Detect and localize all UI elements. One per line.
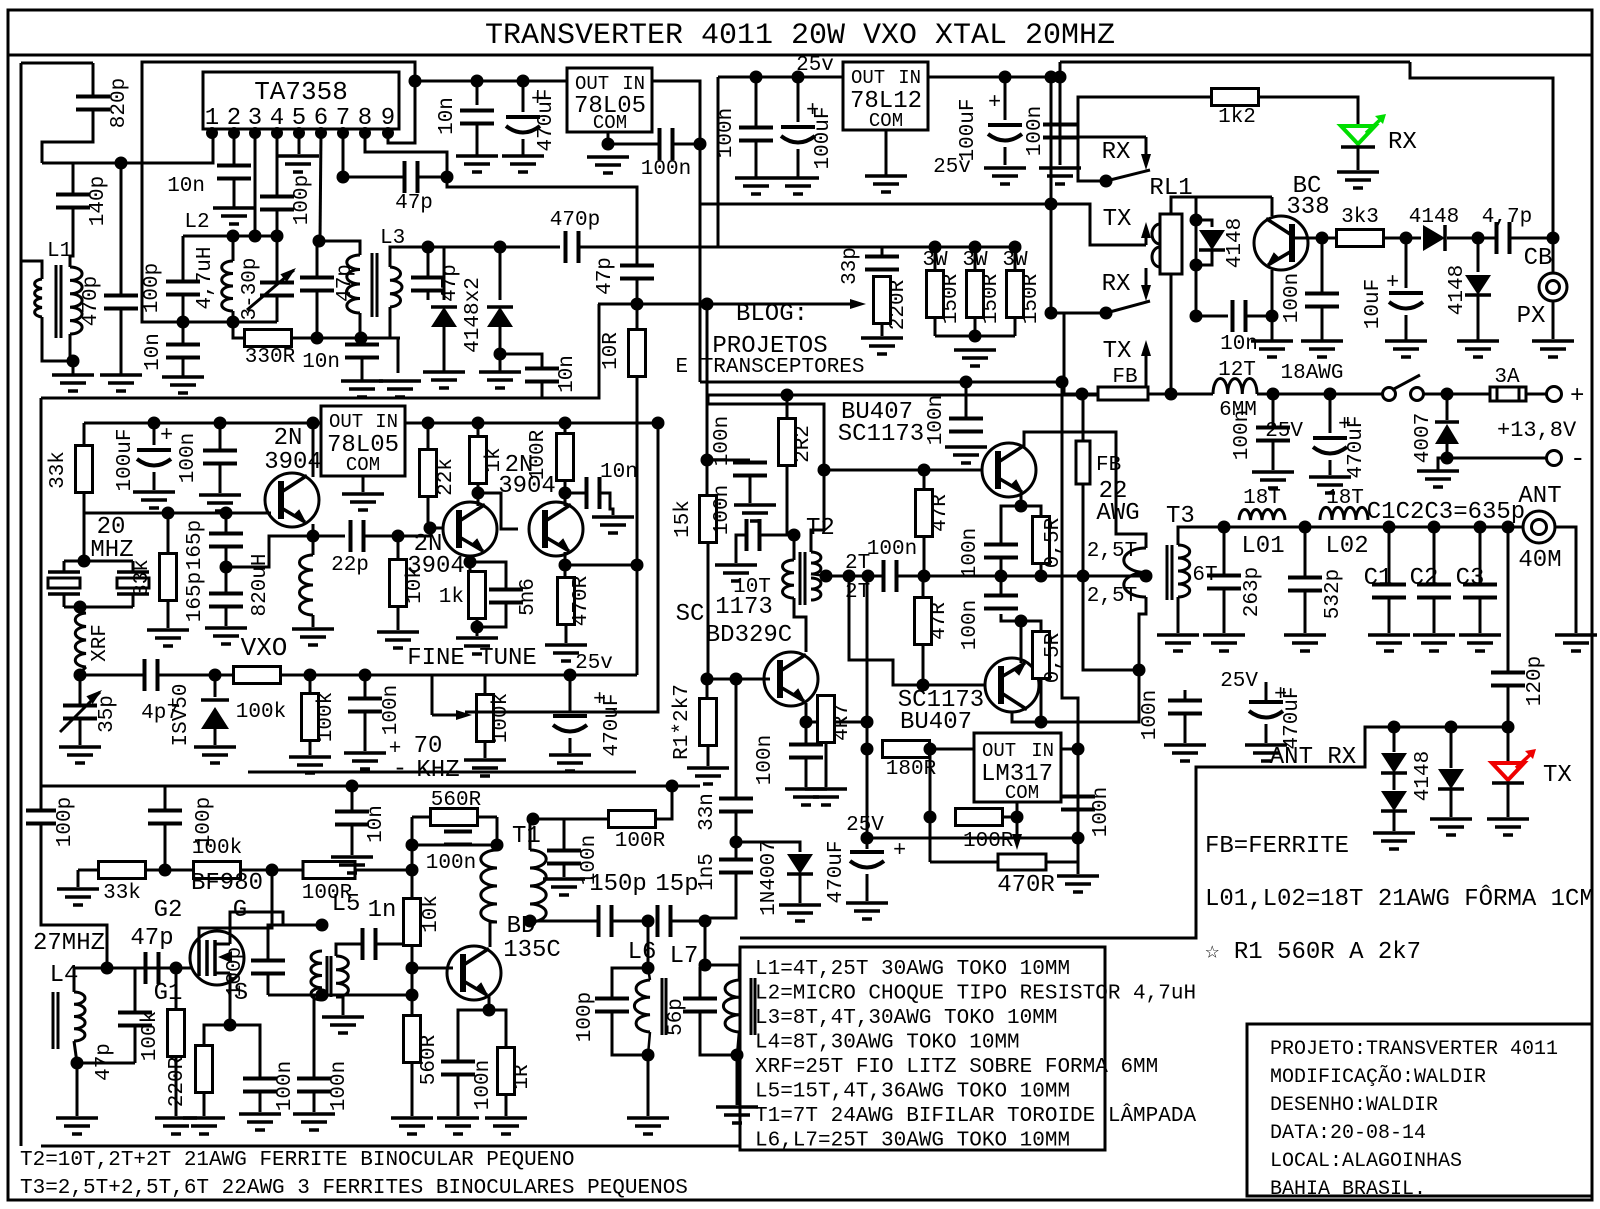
- wire pin7 down: [342, 133, 345, 177]
- wire minus rail: [1447, 457, 1546, 460]
- ground 4148 shunt: [1457, 339, 1499, 343]
- wire vxo box lines: [465, 423, 658, 712]
- capacitor 100n src1: [230, 1025, 260, 1078]
- svg-text:338: 338: [1286, 194, 1329, 221]
- svg-text:BAHIA BRASIL.: BAHIA BRASIL.: [1270, 1178, 1426, 1201]
- svg-text:+13,8V: +13,8V: [1497, 418, 1577, 443]
- wire 470p right to 25v column: [578, 246, 718, 249]
- capacitor 470p: [104, 294, 138, 298]
- capacitor 47p l4: [134, 968, 136, 1012]
- wire L1 secondary bottom: [69, 334, 72, 361]
- wire emitter rail: [884, 575, 1082, 577]
- wire 78L05 vxo COM: [362, 476, 365, 492]
- wire base 2N3904 vxo: [240, 512, 271, 515]
- wire to L1 primary: [21, 261, 42, 279]
- ground 10n L2: [162, 375, 204, 379]
- svg-text:135C: 135C: [503, 937, 561, 964]
- ground 100n l5: [293, 1112, 335, 1116]
- svg-text:25V: 25V: [846, 814, 884, 837]
- ground 220R src: [183, 1116, 225, 1120]
- svg-text:100n: 100n: [715, 108, 738, 158]
- inductor T2 sec b: [811, 578, 821, 600]
- svg-text:1n5: 1n5: [696, 853, 719, 891]
- capacitor 100n rail2: [1272, 394, 1275, 427]
- capacitor 100p pin4: [260, 195, 294, 199]
- wire BC338 emitter to gnd: [1271, 270, 1274, 341]
- svg-text:TRANSVERTER 4011 20W VXO XTAL: TRANSVERTER 4011 20W VXO XTAL 20MHZ: [485, 19, 1115, 53]
- svg-text:BD329C: BD329C: [706, 622, 792, 649]
- potentiometer 220R: [874, 277, 891, 324]
- capacitor 100n 78L05: [608, 143, 660, 146]
- capacitor 100uF in: [1004, 77, 1007, 120]
- svg-text:4148: 4148: [1409, 206, 1459, 229]
- svg-text:DATA:20-08-14: DATA:20-08-14: [1270, 1122, 1426, 1145]
- potentiometer 100k fine tune: [431, 675, 434, 715]
- svg-text:820p: 820p: [108, 78, 131, 128]
- ground 470p: [100, 373, 142, 377]
- ground 1R: [485, 1116, 527, 1120]
- svg-text:470p: 470p: [550, 209, 600, 232]
- wire BD135C emitter: [488, 996, 491, 1010]
- wire main 12v rail: [1064, 393, 1098, 396]
- ground L6: [627, 1116, 669, 1120]
- svg-text:100n: 100n: [426, 852, 476, 875]
- svg-text:FB=FERRITE: FB=FERRITE: [1205, 833, 1349, 860]
- svg-text:G1: G1: [154, 980, 183, 1007]
- svg-text:10k: 10k: [420, 895, 443, 933]
- svg-text:L5=15T,4T,36AWG TOKO 10MM: L5=15T,4T,36AWG TOKO 10MM: [755, 1081, 1070, 1104]
- svg-text:2N: 2N: [274, 425, 303, 452]
- capacitor 100n t2: [761, 534, 787, 537]
- svg-text:L02: L02: [1325, 533, 1368, 560]
- resistor 10k vxo: [397, 536, 400, 560]
- junction L2 coil top: [227, 230, 240, 243]
- wire CB feed: [1410, 62, 1553, 274]
- transistor BU407 lower: [985, 658, 1039, 712]
- svg-text:DESENHO:WALDIR: DESENHO:WALDIR: [1270, 1094, 1438, 1117]
- wire BC338 collector: [1271, 197, 1274, 216]
- svg-text:18T: 18T: [1243, 487, 1281, 510]
- wire 78L05 COM: [607, 132, 610, 144]
- inductor L1 primary: [35, 279, 42, 317]
- ground 470uF antrx: [1245, 743, 1287, 747]
- wire drive to 220R wiper: [598, 303, 858, 306]
- svg-text:10n: 10n: [436, 97, 459, 135]
- svg-text:560R: 560R: [418, 1034, 441, 1085]
- wire trimmer bottom: [276, 296, 279, 322]
- wire L3 primary bottom: [359, 313, 362, 338]
- switch RX 1: [1145, 137, 1148, 162]
- capacitor 10n det: [500, 354, 542, 368]
- ground LED RX: [1337, 170, 1379, 174]
- ground C2: [1413, 633, 1455, 637]
- wire 100p L2 bottom: [182, 295, 185, 322]
- svg-text:TX: TX: [1103, 338, 1132, 365]
- inductor L1 secondary: [70, 267, 82, 334]
- svg-text:2,5T: 2,5T: [1087, 540, 1137, 563]
- wire lm317 feed column: [1062, 382, 1078, 874]
- svg-text:OUT: OUT: [329, 411, 363, 433]
- capacitor 1n5: [719, 858, 753, 862]
- svg-text:165p: 165p: [184, 572, 207, 622]
- capacitor 470uF fine: [569, 675, 572, 711]
- svg-text:ISV50: ISV50: [170, 683, 193, 746]
- ground 10n L3: [341, 379, 383, 383]
- IC 78L12: [843, 62, 928, 130]
- ground 10uF: [1385, 339, 1427, 343]
- svg-text:C1C2C3=635p: C1C2C3=635p: [1367, 499, 1525, 526]
- wire L4 top: [74, 968, 160, 992]
- wire 150R commons: [935, 335, 1015, 338]
- svg-text:3k3: 3k3: [1341, 206, 1379, 229]
- svg-text:25V: 25V: [1265, 420, 1303, 443]
- svg-text:3904: 3904: [407, 553, 465, 580]
- svg-text:35p: 35p: [96, 695, 119, 733]
- wire pin9 supply loop: [142, 62, 415, 322]
- ground 100uF in: [984, 166, 1026, 170]
- ground 35p: [59, 745, 101, 749]
- wire BU407b emitter up: [1023, 621, 1025, 661]
- resistor 100R vxo: [564, 423, 567, 434]
- svg-text:100n: 100n: [274, 1061, 297, 1111]
- resistor 560R top: [431, 809, 478, 826]
- capacitor 100p l5: [268, 925, 322, 961]
- terminal minus: [1547, 451, 1562, 466]
- ground 100uF: [777, 176, 819, 180]
- wire ANT shell to gnd: [1555, 527, 1576, 633]
- wire source down: [229, 984, 232, 1025]
- junction pin6 node: [313, 235, 326, 248]
- svg-text:150R: 150R: [980, 273, 1003, 324]
- ground 100uF vxo: [133, 490, 175, 494]
- wire to RX switch 1: [1060, 62, 1146, 137]
- wire relay top to BC338 collector: [1171, 197, 1272, 214]
- wire L1 primary to gnd node: [42, 317, 73, 361]
- wire left rail RX feed: [20, 63, 23, 1146]
- svg-text:165p: 165p: [184, 520, 207, 570]
- svg-text:40M: 40M: [1518, 547, 1561, 574]
- svg-text:22p: 22p: [331, 554, 369, 577]
- capacitor 165p b: [209, 592, 243, 596]
- ground pin2: [213, 206, 255, 210]
- ground 100n src1: [239, 1112, 281, 1116]
- wire LPF bus: [1224, 526, 1523, 529]
- wire y=817 to 560R: [412, 816, 431, 819]
- inductor L6: [634, 980, 650, 1032]
- capacitor 100n em2: [1001, 614, 1021, 621]
- wire Q3 emitter out: [564, 552, 567, 565]
- resistor 470R q3: [564, 565, 567, 578]
- ground 4148 a: [423, 370, 465, 374]
- resistor 10R: [629, 330, 646, 377]
- resistor 560R bf: [411, 995, 414, 1016]
- svg-text:RX: RX: [1388, 129, 1417, 156]
- svg-text:470R: 470R: [997, 872, 1055, 899]
- svg-text:IN: IN: [1031, 740, 1054, 762]
- svg-text:100n: 100n: [867, 538, 917, 561]
- svg-text:T1: T1: [512, 823, 541, 850]
- wire TX arrow 1: [1051, 77, 1146, 245]
- wire L5 sec top 1n: [336, 944, 362, 956]
- wire T2 sec top to base: [811, 530, 824, 552]
- wire 78L05 vxo IN rail: [405, 422, 658, 425]
- capacitor 140p: [56, 193, 90, 197]
- svg-text:47p: 47p: [594, 257, 617, 295]
- svg-text:10n: 10n: [365, 805, 388, 843]
- varicap ISV50: [214, 675, 217, 697]
- svg-text:18T: 18T: [1326, 487, 1364, 510]
- capacitor 100p g2: [164, 786, 167, 810]
- svg-text:TA7358: TA7358: [254, 77, 348, 107]
- trimmer capacitor 35p: [80, 674, 145, 677]
- ground 470uF rail2: [1309, 475, 1351, 479]
- svg-text:47p: 47p: [439, 264, 462, 302]
- ground 78L12: [865, 174, 907, 178]
- capacitor 100uF vxo: [153, 423, 156, 445]
- svg-text:-: -: [393, 756, 407, 783]
- wire L4 bottom: [74, 1041, 77, 1063]
- svg-text:10n: 10n: [1220, 333, 1258, 356]
- resistor 330R: [245, 330, 292, 347]
- inductor L3 secondary: [390, 267, 402, 307]
- svg-text:140p: 140p: [87, 176, 110, 226]
- LED RX green: [1341, 126, 1375, 144]
- ground 100n t2: [715, 563, 757, 567]
- inductor L5 secondary: [336, 956, 348, 997]
- wire RX2 common down: [1063, 313, 1066, 394]
- svg-text:100n: 100n: [711, 416, 734, 466]
- wire 25v rail: [718, 76, 843, 79]
- wire BD329C collector to T2: [794, 645, 806, 657]
- wire base bias loop: [708, 404, 824, 470]
- svg-text:100n: 100n: [1024, 106, 1047, 156]
- wire 4R7 bottom gnd: [825, 742, 828, 787]
- svg-text:150R: 150R: [1020, 273, 1043, 324]
- capacitor 120p: [1507, 527, 1510, 672]
- svg-text:COM: COM: [1005, 782, 1039, 804]
- inductor XRF: [80, 607, 86, 613]
- svg-text:LOCAL:ALAGOINHAS: LOCAL:ALAGOINHAS: [1270, 1150, 1462, 1173]
- capacitor 47p tap: [620, 264, 654, 268]
- ground 100n pa bias: [945, 445, 987, 449]
- wire 470p top lead: [120, 163, 123, 295]
- svg-text:L6,L7=25T 30AWG TOKO 10MM: L6,L7=25T 30AWG TOKO 10MM: [755, 1130, 1070, 1153]
- wire to 330R: [233, 322, 245, 338]
- svg-text:100uF: 100uF: [957, 98, 980, 161]
- svg-text:10uF: 10uF: [1362, 279, 1385, 329]
- wire 100p to L2 node: [276, 210, 279, 236]
- svg-text:560R: 560R: [431, 789, 482, 812]
- ground rx diodes: [1373, 831, 1415, 835]
- svg-text:100n: 100n: [177, 433, 200, 483]
- wire vxo supply rail: [84, 422, 321, 425]
- svg-text:47p: 47p: [395, 192, 433, 215]
- wire 820p top lead: [92, 63, 95, 96]
- svg-text:150R: 150R: [940, 273, 963, 324]
- wire x867 column: [866, 576, 869, 838]
- wire BD135C collector: [490, 922, 497, 947]
- potentiometer 470R: [998, 854, 1046, 870]
- resistor 10k bf: [404, 899, 421, 946]
- svg-text:OUT: OUT: [851, 67, 885, 89]
- svg-text:PX: PX: [1517, 303, 1546, 330]
- resistor R1 2k7: [706, 679, 709, 699]
- ferrite bead FB2: [1082, 394, 1085, 441]
- svg-text:VXO: VXO: [241, 633, 288, 663]
- svg-text:4148: 4148: [1446, 265, 1469, 315]
- capacitor 100n bd329: [805, 722, 808, 744]
- wire 820p bottom to 140p node: [42, 110, 93, 163]
- svg-text:10R: 10R: [600, 332, 623, 370]
- wire 13.8v feed: [1060, 61, 1410, 64]
- svg-text:T1=7T 24AWG BIFILAR TOROIDE LÂ: T1=7T 24AWG BIFILAR TOROIDE LÂMPADA: [755, 1104, 1196, 1128]
- capacitor 100n rail tap: [882, 560, 886, 592]
- svg-text:100n: 100n: [959, 600, 982, 650]
- svg-text:RX: RX: [1102, 271, 1131, 298]
- junction trimmer top: [271, 230, 284, 243]
- ground L3 sec: [379, 379, 421, 383]
- resistor 33k in: [99, 862, 146, 879]
- wire 140p to L1 secondary: [70, 208, 73, 267]
- svg-text:1k: 1k: [439, 586, 464, 609]
- capacitor 100n driver1: [707, 459, 750, 462]
- resistor 100k g1: [175, 968, 178, 1010]
- ground L1: [52, 373, 94, 377]
- svg-text:100n: 100n: [1139, 690, 1162, 740]
- svg-text:3-30p: 3-30p: [239, 257, 262, 320]
- wire 5v rail: [415, 80, 567, 83]
- svg-text:OUT: OUT: [575, 73, 609, 95]
- svg-text:220R: 220R: [887, 279, 910, 330]
- ground R1: [687, 766, 729, 770]
- wire Q2 emitter: [469, 556, 472, 562]
- ground 263p: [1203, 633, 1245, 637]
- svg-text:TX: TX: [1103, 206, 1132, 233]
- junction 5v rail: [409, 75, 422, 88]
- svg-text:100p: 100p: [224, 947, 247, 997]
- svg-text:CB: CB: [1524, 245, 1553, 272]
- diode 4007 reverse: [1446, 394, 1449, 420]
- wire ANT RX: [740, 727, 1508, 938]
- ground L4: [56, 1116, 98, 1120]
- ground 100n drv: [734, 503, 776, 507]
- wire 25v into vxo: [570, 674, 637, 677]
- IC 78L05 vxo: [321, 406, 405, 476]
- svg-text:100R: 100R: [527, 429, 550, 480]
- junction L3 bottom: [355, 332, 368, 345]
- wire fb rail left: [708, 394, 1098, 397]
- wire collector 2N3904 vxo: [312, 423, 315, 477]
- svg-text:L01: L01: [1241, 533, 1284, 560]
- svg-text:100uF: 100uF: [812, 106, 835, 169]
- svg-text:100n: 100n: [380, 685, 403, 735]
- capacitor 100n in: [1059, 77, 1062, 124]
- capacitor 532p: [1304, 527, 1307, 577]
- wire vxo base rail: [84, 512, 240, 515]
- svg-text:5n6: 5n6: [517, 578, 540, 616]
- svg-text:L5: L5: [332, 891, 361, 918]
- capacitor 10n pin2: [217, 164, 251, 168]
- capacitor 33n: [735, 679, 738, 798]
- ground 100n bd329: [785, 787, 827, 791]
- svg-text:220R: 220R: [166, 1056, 189, 1107]
- wire L2 bottom rail: [183, 321, 277, 324]
- svg-text:47p: 47p: [93, 1043, 116, 1081]
- capacitor 4p7: [98, 674, 145, 676]
- ground 470R q3: [545, 643, 587, 647]
- capacitor 10n relay: [1190, 310, 1203, 323]
- wire BU407b base: [849, 576, 985, 685]
- svg-text:10n: 10n: [302, 351, 340, 374]
- wire fb2 to T3 bottom: [1083, 576, 1146, 670]
- wire top of input loop: [21, 62, 93, 65]
- svg-text:G2: G2: [154, 897, 183, 924]
- svg-text:47p: 47p: [130, 925, 173, 952]
- capacitor 33p: [881, 247, 884, 256]
- wire bottom section box: [41, 947, 1105, 1150]
- svg-text:SC1173: SC1173: [838, 421, 924, 448]
- wire BU407a emitter: [1020, 494, 1023, 506]
- svg-text:1k2: 1k2: [1218, 106, 1256, 129]
- capacitor 100n lm317: [1061, 795, 1095, 799]
- svg-text:470R: 470R: [570, 575, 593, 626]
- svg-text:L2: L2: [184, 211, 209, 234]
- wire BU407a collector to T3: [1024, 432, 1146, 548]
- resistor 47R a: [923, 470, 926, 490]
- junction 15p L7: [699, 915, 712, 928]
- ground 10n k: [331, 855, 373, 859]
- svg-text:L1=4T,25T 30AWG TOKO 10MM: L1=4T,25T 30AWG TOKO 10MM: [755, 958, 1070, 981]
- svg-text:IN: IN: [622, 73, 645, 95]
- svg-text:18AWG: 18AWG: [1280, 362, 1343, 385]
- inductor L2 4,7uH: [232, 236, 235, 261]
- ground ISV50: [194, 745, 236, 749]
- svg-text:+: +: [893, 838, 906, 863]
- svg-text:L3=8T,4T,30AWG TOKO 10MM: L3=8T,4T,30AWG TOKO 10MM: [755, 1007, 1057, 1030]
- junction 100n in: [694, 138, 707, 151]
- wire VXO left rail: [40, 398, 43, 810]
- capacitor 4,7p: [1495, 222, 1499, 254]
- ground fine pot: [464, 758, 506, 762]
- capacitor 100n t1: [444, 830, 472, 834]
- ground 10k vxo: [377, 630, 419, 634]
- svg-text:L01,L02=18T 21AWG FÔRMA 1CM: L01,L02=18T 21AWG FÔRMA 1CM: [1205, 884, 1594, 913]
- svg-text:100n: 100n: [925, 395, 948, 445]
- ground 820uH: [292, 627, 334, 631]
- resistor 2R2: [786, 395, 789, 419]
- svg-text:100n: 100n: [1090, 787, 1113, 837]
- svg-text:+: +: [1570, 383, 1584, 410]
- wire 25V to 100R wire: [867, 837, 1078, 840]
- svg-text:1R: 1R: [511, 1064, 534, 1090]
- svg-text:BLOG:: BLOG:: [736, 301, 808, 328]
- svg-text:100n: 100n: [328, 1061, 351, 1111]
- wire mixer bus: [428, 246, 560, 249]
- ground 10n q3: [592, 515, 634, 519]
- svg-text:100R: 100R: [963, 830, 1014, 853]
- ground rx diode3: [1430, 817, 1472, 821]
- wire drain to L5: [230, 912, 322, 931]
- wire to L3 primary top: [319, 241, 360, 255]
- ground 470uF fine: [549, 753, 591, 757]
- svg-text:RX: RX: [1102, 139, 1131, 166]
- inductor T2 sec a: [811, 552, 821, 574]
- inductor L4: [52, 992, 55, 1049]
- svg-text:4148: 4148: [1412, 751, 1435, 801]
- wire L3 secondary bottom to ground: [390, 307, 398, 338]
- resistor 22k: [427, 423, 430, 450]
- svg-text:33k: 33k: [131, 559, 154, 597]
